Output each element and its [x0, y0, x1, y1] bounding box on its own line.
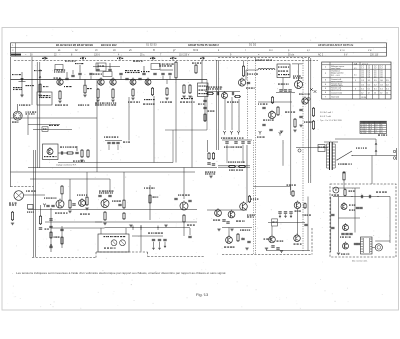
svg-text:12: 12 — [368, 93, 370, 95]
svg-text:sans signal: sans signal — [331, 68, 341, 70]
svg-text:S1 S2 S3: S1 S2 S3 — [146, 44, 157, 47]
svg-text:9: 9 — [355, 80, 356, 82]
svg-text:50 c/s: 50 c/s — [288, 55, 295, 57]
svg-text:GRAM TA/TB PU BAND 2: GRAM TA/TB PU BAND 2 — [188, 43, 219, 47]
svg-text:6.1: 6.1 — [361, 89, 364, 91]
svg-text:12: 12 — [386, 93, 388, 95]
svg-text:6.1: 6.1 — [380, 89, 383, 91]
svg-text:12: 12 — [380, 93, 382, 95]
svg-text:0.2: 0.2 — [380, 84, 383, 86]
svg-text:0.2: 0.2 — [374, 84, 377, 86]
svg-text:6.1: 6.1 — [368, 89, 371, 91]
svg-text:28 30: 28 30 — [361, 97, 366, 99]
svg-text:6.1: 6.1 — [374, 89, 377, 91]
svg-text:repos circuit: repos circuit — [331, 88, 342, 91]
svg-text:0.1: 0.1 — [354, 75, 357, 77]
svg-text:AC 2: AC 2 — [318, 54, 324, 57]
svg-text:B.L.R 7 mA: B.L.R 7 mA — [320, 115, 331, 118]
svg-text:3.5: 3.5 — [368, 80, 371, 82]
svg-text:2.1: 2.1 — [375, 132, 377, 134]
svg-text:bloc secteur alim.: bloc secteur alim. — [352, 260, 368, 263]
svg-text:0.6: 0.6 — [374, 76, 377, 78]
svg-text:45: 45 — [370, 132, 372, 134]
svg-text:0.2: 0.2 — [361, 84, 364, 86]
svg-text:3.5: 3.5 — [386, 80, 389, 82]
svg-text:0.2: 0.2 — [386, 84, 389, 86]
svg-text:v w: v w — [368, 50, 372, 52]
svg-text:Tps : 3 x 1.5 V IEC R20: Tps : 3 x 1.5 V IEC R20 — [320, 120, 343, 122]
svg-text:reglage oscillateur H.F.: reglage oscillateur H.F. — [56, 164, 77, 167]
svg-text:6 V: 6 V — [344, 55, 348, 57]
svg-text:q r: q r — [307, 49, 310, 52]
svg-text:s t u: s t u — [340, 49, 345, 52]
svg-text:110 220 V: 110 220 V — [179, 55, 190, 57]
svg-text:0.5: 0.5 — [354, 68, 357, 70]
svg-text:45: 45 — [365, 132, 367, 134]
svg-text:120 6: 120 6 — [94, 55, 100, 57]
svg-text:B1 B2 B3 B4 B5 B6 B7 B8 B9: B1 B2 B3 B4 B5 B6 B7 B8 B9 — [56, 43, 93, 47]
svg-text:Courant total: Courant total — [331, 91, 342, 94]
svg-text:P.O. - G.O.: P.O. - G.O. — [331, 75, 341, 77]
svg-text:45: 45 — [361, 132, 363, 134]
svg-text:220 110: 220 110 — [370, 55, 379, 57]
svg-text:AF115 AF116 AF117 OC75 2x: AF115 AF116 AF117 OC75 2x — [318, 43, 354, 47]
svg-text:Les tensions indiquées sont me: Les tensions indiquées sont mesurées à l… — [16, 271, 226, 275]
svg-text:3.5: 3.5 — [361, 80, 364, 82]
svg-text:R.C.A 7 mA: R.C.A 7 mA — [320, 111, 331, 114]
svg-text:B10 B11 B12: B10 B11 B12 — [101, 43, 117, 47]
svg-text:0.6: 0.6 — [368, 76, 371, 78]
svg-text:0.6: 0.6 — [380, 76, 383, 78]
svg-text:D1 D2: D1 D2 — [249, 44, 257, 47]
svg-text:Gain total: Gain total — [331, 96, 340, 99]
svg-text:3.5: 3.5 — [374, 80, 377, 82]
svg-text:Fig. 13: Fig. 13 — [196, 292, 209, 297]
svg-text:0.6: 0.6 — [361, 76, 364, 78]
svg-text:h8 i9: h8 i9 — [193, 50, 199, 52]
svg-text:6.1: 6.1 — [386, 89, 389, 91]
svg-text:12: 12 — [374, 93, 376, 95]
svg-text:2.1: 2.1 — [381, 132, 383, 134]
svg-text:6: 6 — [355, 89, 356, 91]
svg-text:0.2: 0.2 — [368, 84, 371, 86]
